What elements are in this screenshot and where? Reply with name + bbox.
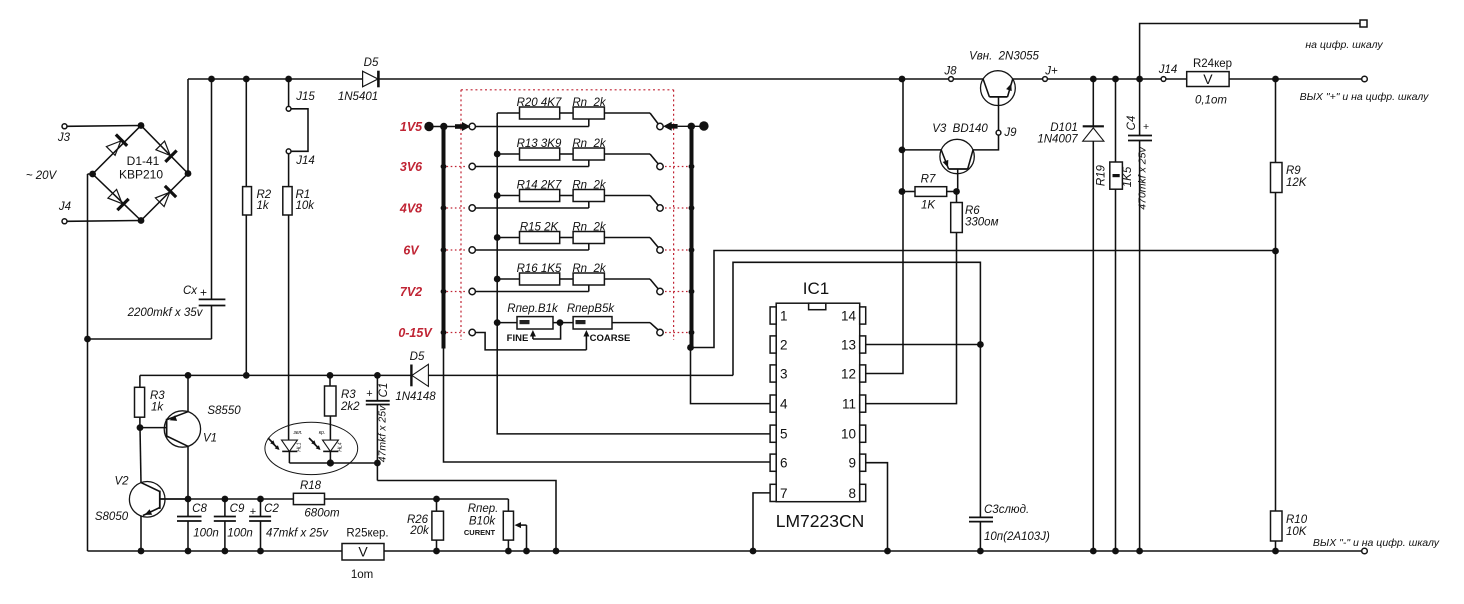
wire C4 node to digital scale terminal xyxy=(1140,24,1360,80)
svg-text:11: 11 xyxy=(842,397,856,412)
svg-text:0,1om: 0,1om xyxy=(1195,95,1227,107)
svg-text:HL1: HL1 xyxy=(297,442,303,451)
contact left 3V6 xyxy=(469,163,475,169)
svg-text:R20 4K7: R20 4K7 xyxy=(517,97,562,109)
bridge diode upper-right xyxy=(156,141,177,162)
svg-text:ВЫХ "-" и на цифр. шкалу: ВЫХ "-" и на цифр. шкалу xyxy=(1313,537,1440,549)
terminal square digital scale xyxy=(1360,20,1367,27)
bus node left 0-15V xyxy=(441,330,447,336)
svg-text:S8050: S8050 xyxy=(95,511,129,523)
wire mid rail up-over to C3 column xyxy=(733,262,980,375)
svg-text:+: + xyxy=(1143,121,1149,133)
wire pin9 to rail xyxy=(866,463,888,551)
red dotted right 3V6 xyxy=(665,166,688,168)
node V1-V2-C8 xyxy=(185,496,192,503)
svg-text:+: + xyxy=(366,388,372,400)
svg-text:10п(2А103J): 10п(2А103J) xyxy=(984,531,1050,543)
contact right 0-15V xyxy=(657,329,663,335)
svg-text:8: 8 xyxy=(848,486,856,501)
svg-text:10K: 10K xyxy=(1286,526,1308,538)
selector wiper left 1V5 xyxy=(424,122,470,131)
label 0-15V xyxy=(398,326,433,340)
contact right 6V xyxy=(657,247,663,253)
bus node right 4V8 xyxy=(689,205,695,211)
selector riser xyxy=(496,113,498,323)
wire ground rail bottom right xyxy=(384,550,1276,552)
bus node left 3V6 xyxy=(441,164,447,170)
contact right 3V6 xyxy=(657,163,663,169)
capacitor C8 100n xyxy=(177,499,219,551)
svg-text:C1: C1 xyxy=(378,383,390,398)
terminal J9 xyxy=(996,127,1017,139)
node J8 vertical R7 xyxy=(899,188,906,195)
transistor Vvn 2N3055 xyxy=(953,51,1039,131)
wire rail to output minus xyxy=(1276,550,1362,552)
node out plus R9 xyxy=(1272,76,1279,83)
transistor V3 BD140 xyxy=(902,123,999,192)
svg-text:Rn 2k: Rn 2k xyxy=(572,222,606,234)
red dotted left 0-15V xyxy=(447,332,468,334)
svg-text:J9: J9 xyxy=(1003,127,1017,139)
svg-text:+: + xyxy=(200,286,207,300)
bus node left 6V xyxy=(441,247,447,253)
wire ground rail bottom left xyxy=(88,550,343,552)
label VYH plus xyxy=(1300,91,1430,103)
capacitor C2 47mkf xyxy=(249,499,329,551)
node rail-C8 xyxy=(185,548,192,555)
node rail-C2 xyxy=(257,548,264,555)
node bus-R2 xyxy=(243,76,250,83)
terminal output minus xyxy=(1362,548,1368,554)
svg-text:0-15V: 0-15V xyxy=(398,326,433,340)
svg-text:3V6: 3V6 xyxy=(400,160,423,174)
red dotted right 0-15V xyxy=(665,332,688,334)
node pin13 junction xyxy=(977,341,984,348)
node rail-R19 xyxy=(1112,548,1119,555)
node bus-C4 xyxy=(1136,76,1143,83)
svg-text:C2: C2 xyxy=(264,503,279,515)
svg-text:D1-41: D1-41 xyxy=(127,154,160,168)
bridge diode lower-right xyxy=(155,186,176,207)
svg-text:R24кер: R24кер xyxy=(1193,58,1232,70)
svg-text:12K: 12K xyxy=(1286,177,1308,189)
node rail-pin9 xyxy=(884,548,891,555)
label ~20V input xyxy=(26,170,58,182)
capacitor Cx 2200mkf xyxy=(88,79,226,339)
terminal output plus xyxy=(1362,76,1368,82)
terminal J3 xyxy=(57,124,71,144)
wire LED cathodes to C1 xyxy=(289,462,377,464)
svg-text:V: V xyxy=(1203,71,1213,87)
svg-text:13: 13 xyxy=(841,338,856,353)
node riser pot xyxy=(494,319,501,326)
resistor R2 1k xyxy=(243,79,272,375)
terminal J4 xyxy=(58,201,71,224)
potentiometer RperB5k COARSE xyxy=(567,303,658,330)
svg-text:V3 BD140: V3 BD140 xyxy=(932,123,988,135)
terminal J14 left xyxy=(286,149,315,167)
svg-text:R18: R18 xyxy=(300,480,322,492)
contact right 1V5 xyxy=(657,123,663,129)
wire right bus to pin4 xyxy=(691,348,771,404)
node riser row4 xyxy=(494,234,501,241)
bus node left 7V2 xyxy=(441,289,447,295)
svg-text:S8550: S8550 xyxy=(207,405,241,417)
svg-text:R9: R9 xyxy=(1286,165,1301,177)
node rail-pin7 xyxy=(750,548,757,555)
bridge diode upper-left xyxy=(106,135,127,156)
wire C1 bottom to rail xyxy=(377,481,556,552)
red dotted right 7V2 xyxy=(665,291,688,293)
svg-text:~ 20V: ~ 20V xyxy=(26,170,58,182)
svg-text:R3: R3 xyxy=(341,389,356,401)
svg-text:1k: 1k xyxy=(257,200,270,212)
svg-text:1V5: 1V5 xyxy=(400,120,423,134)
bus node right 0-15V xyxy=(689,330,695,336)
selector red dotted frame xyxy=(461,90,674,340)
svg-text:D5: D5 xyxy=(364,57,379,69)
svg-text:2200mkf x 35v: 2200mkf x 35v xyxy=(127,307,204,319)
svg-text:470mkf x 25v: 470mkf x 25v xyxy=(1137,147,1149,210)
wire bridge left corner to ground rail xyxy=(88,174,93,551)
wire pin7 to rail xyxy=(753,493,770,551)
svg-text:5: 5 xyxy=(780,427,788,442)
wiper COARSE xyxy=(475,330,630,350)
wire R1 to LED HL1 xyxy=(288,215,290,440)
svg-text:R19: R19 xyxy=(1096,164,1108,186)
selector right bus bar xyxy=(690,125,694,348)
red dotted left 4V8 xyxy=(447,207,468,209)
svg-text:HL4: HL4 xyxy=(338,442,344,451)
wire riser to pin5 xyxy=(497,323,770,434)
node rail-V2 xyxy=(138,548,145,555)
red dotted left 3V6 xyxy=(447,166,468,168)
wire mid rail D5 to riser xyxy=(428,374,733,376)
node riser row2 xyxy=(494,151,501,158)
wire top bus D5 to J8 xyxy=(378,78,948,80)
node mid-C1 xyxy=(374,372,381,379)
svg-text:R6: R6 xyxy=(965,205,980,217)
wire pin11 to R6 xyxy=(866,233,957,404)
wire mid rail R3 to D5 xyxy=(140,374,412,376)
label 1V5 xyxy=(400,120,423,134)
svg-text:+: + xyxy=(250,506,256,518)
contact right 7V2 xyxy=(657,288,663,294)
svg-text:1N5401: 1N5401 xyxy=(338,91,378,103)
terminal J8 xyxy=(943,66,957,82)
resistor R1 10k xyxy=(283,154,315,215)
svg-text:Rn 2k: Rn 2k xyxy=(572,180,606,192)
node R7-R6-V3 xyxy=(953,188,960,195)
wire bus J+ to output xyxy=(1047,78,1161,80)
svg-text:R25кер.: R25кер. xyxy=(346,528,388,540)
svg-text:J4: J4 xyxy=(58,201,71,213)
node bus-D101 xyxy=(1090,76,1097,83)
svg-text:IC1: IC1 xyxy=(803,279,829,298)
LED HL1 green xyxy=(268,430,303,463)
svg-text:ВЫХ "+" и на цифр. шкалу: ВЫХ "+" и на цифр. шкалу xyxy=(1300,91,1430,103)
svg-text:J+: J+ xyxy=(1044,66,1058,78)
node R3-V1-V2 xyxy=(137,424,144,431)
selector row 6V resistors R15 2K xyxy=(475,222,658,251)
resistor R6 330om xyxy=(951,192,999,233)
node bus-Cx xyxy=(208,76,215,83)
label 6V xyxy=(403,244,420,258)
wire J4 to bridge xyxy=(67,220,141,223)
bus node right 7V2 xyxy=(689,289,695,295)
transistor V2 S8050 xyxy=(95,428,188,551)
wire jumper J15-J14 xyxy=(291,109,308,152)
svg-text:2k2: 2k2 xyxy=(340,401,360,413)
wire pin12 to J8 branch xyxy=(866,79,903,374)
svg-text:CURENT: CURENT xyxy=(464,528,496,537)
selector row 3V6 resistors R13 3K9 xyxy=(475,138,658,167)
wire right bus to R9 node xyxy=(691,251,1276,348)
bridge rectifier D1-41 KBP210 outline xyxy=(93,126,188,221)
shunt R24ker voltmeter xyxy=(1166,58,1232,107)
svg-text:J8: J8 xyxy=(943,66,957,78)
svg-text:12: 12 xyxy=(841,367,856,382)
terminal J15 xyxy=(286,79,315,111)
svg-text:7V2: 7V2 xyxy=(400,285,422,299)
svg-text:RперB5k: RперB5k xyxy=(567,303,615,315)
svg-text:Rпер.B1k: Rпер.B1k xyxy=(507,303,559,315)
svg-text:1K5: 1K5 xyxy=(1122,166,1134,187)
red dotted left 6V xyxy=(447,249,468,251)
svg-text:2: 2 xyxy=(780,338,788,353)
svg-text:Rn 2k: Rn 2k xyxy=(572,138,606,150)
node J8 vertical V3 base xyxy=(899,147,906,154)
svg-text:Vвн. 2N3055: Vвн. 2N3055 xyxy=(969,51,1039,63)
resistor R10 10K xyxy=(1271,251,1308,551)
transistor V1 S8550 xyxy=(140,375,241,499)
capacitor C4 470mkf xyxy=(1126,79,1152,551)
node rail-C4 xyxy=(1136,548,1143,555)
svg-text:V2: V2 xyxy=(114,476,129,488)
resistor R3 1k xyxy=(135,375,166,427)
svg-text:1N4007: 1N4007 xyxy=(1037,134,1078,146)
svg-text:7: 7 xyxy=(780,486,788,501)
bridge diode lower-left xyxy=(108,189,129,210)
resistor R7 1K xyxy=(902,174,957,212)
contact left 0-15V xyxy=(469,329,475,335)
wire J3 to bridge xyxy=(67,125,141,128)
label 3V6 xyxy=(400,160,423,174)
wire top supply bus left segment xyxy=(188,78,363,80)
svg-text:на цифр. шкалу: на цифр. шкалу xyxy=(1305,39,1383,51)
node bus-J8-branch xyxy=(899,76,906,83)
capacitor C1 47mkf xyxy=(366,375,390,480)
wire V box to output plus xyxy=(1229,78,1362,80)
LED HL4 red xyxy=(309,416,344,463)
terminal J+ xyxy=(1013,66,1058,82)
node pot mid xyxy=(553,319,573,326)
svg-text:C9: C9 xyxy=(230,503,245,515)
node rail-C3 xyxy=(977,548,984,555)
node rail-D101 xyxy=(1090,548,1097,555)
wire bridge right corner to bus xyxy=(187,79,189,174)
svg-text:B10k: B10k xyxy=(469,516,496,528)
label 4V8 xyxy=(399,202,422,216)
potentiometer Rper B10k xyxy=(464,499,527,551)
svg-text:R7: R7 xyxy=(921,174,936,186)
terminal J14 right xyxy=(1158,64,1178,81)
node C1 bottom LED join xyxy=(374,460,381,467)
diode D101 1N4007 xyxy=(1037,79,1104,551)
node C9 top xyxy=(222,496,229,503)
svg-text:LM7223CN: LM7223CN xyxy=(776,511,865,531)
svg-text:330ом: 330ом xyxy=(965,217,999,229)
resistor R9 12K xyxy=(1271,79,1308,251)
wire left bus to pin6 xyxy=(444,349,771,463)
node bus-R19 xyxy=(1112,76,1119,83)
resistor R19 1K5 xyxy=(1096,79,1135,551)
bus node right 3V6 xyxy=(689,164,695,170)
svg-text:C8: C8 xyxy=(192,503,207,515)
label 7V2 xyxy=(400,285,422,299)
node mid-V1 xyxy=(185,372,192,379)
node C1-rail xyxy=(553,548,560,555)
node bridge top xyxy=(138,122,145,129)
svg-text:R14 2K7: R14 2K7 xyxy=(517,180,562,192)
node bus-J15 xyxy=(285,76,292,83)
resistor R18 680om xyxy=(293,480,508,520)
svg-text:Cx: Cx xyxy=(183,285,198,297)
node rail-R26 xyxy=(433,548,440,555)
node rail-C9 xyxy=(222,548,229,555)
node mid-R2 xyxy=(243,372,250,379)
node rail-B10k xyxy=(505,548,512,555)
diode D5 1N5401 xyxy=(338,57,379,103)
label na cifr shkalu xyxy=(1305,39,1383,51)
capacitor C3 10p xyxy=(969,345,1050,552)
node riser row3 xyxy=(494,192,501,199)
node C2 top xyxy=(257,496,264,503)
svg-text:C3слюд.: C3слюд. xyxy=(984,504,1029,516)
node HL4 cathode xyxy=(327,459,334,466)
svg-text:кр.: кр. xyxy=(319,430,326,436)
svg-text:1N4148: 1N4148 xyxy=(395,391,436,403)
shunt R25ker 1om voltmeter xyxy=(342,528,389,582)
svg-text:C4: C4 xyxy=(1126,116,1138,131)
svg-text:6: 6 xyxy=(780,456,788,471)
svg-text:R15 2K: R15 2K xyxy=(520,222,560,234)
svg-text:R3: R3 xyxy=(150,390,165,402)
svg-text:Rn 2k: Rn 2k xyxy=(572,97,606,109)
contact right 4V8 xyxy=(657,205,663,211)
svg-text:J14: J14 xyxy=(295,155,315,167)
svg-text:14: 14 xyxy=(841,309,857,324)
svg-text:1K: 1K xyxy=(921,200,936,212)
svg-text:10: 10 xyxy=(841,427,856,442)
node riser row5 xyxy=(494,276,501,283)
svg-text:4V8: 4V8 xyxy=(399,202,422,216)
svg-text:зел.: зел. xyxy=(292,430,302,436)
node bridge right xyxy=(185,170,192,177)
node bridge bottom xyxy=(138,217,145,224)
node rail-wiper xyxy=(523,548,530,555)
resistor R26 20k xyxy=(407,499,444,551)
node R26 top xyxy=(433,496,440,503)
svg-text:J15: J15 xyxy=(295,91,315,103)
svg-text:680om: 680om xyxy=(304,508,340,520)
node bridge left xyxy=(89,171,96,178)
diode D5 1N4148 xyxy=(395,351,436,403)
red dotted left 7V2 xyxy=(447,291,468,293)
svg-text:20k: 20k xyxy=(409,525,430,537)
node rail-R10 xyxy=(1272,548,1279,555)
svg-text:1: 1 xyxy=(780,309,788,324)
selector row 4V8 resistors R14 2K7 xyxy=(475,180,658,209)
label VYH minus xyxy=(1313,537,1440,549)
svg-text:6V: 6V xyxy=(403,244,420,258)
selector row 1V5 resistors R20 4K7 xyxy=(475,97,658,127)
svg-text:V: V xyxy=(358,544,368,560)
svg-text:Rпер.: Rпер. xyxy=(468,503,499,515)
svg-text:V1: V1 xyxy=(203,433,217,445)
svg-text:47mkf x 25v: 47mkf x 25v xyxy=(377,405,389,462)
red dotted right 4V8 xyxy=(665,207,688,209)
svg-text:4: 4 xyxy=(780,397,788,412)
node R9-R10 xyxy=(1272,248,1279,255)
op-amp IC1 LM7223CN body xyxy=(770,279,866,531)
wiper FINE xyxy=(507,324,561,345)
potentiometer Rper B1k FINE xyxy=(497,303,559,329)
svg-text:R13 3K9: R13 3K9 xyxy=(517,138,562,150)
svg-text:47mkf x 25v: 47mkf x 25v xyxy=(266,528,329,540)
svg-text:1om: 1om xyxy=(351,569,373,581)
svg-text:100n: 100n xyxy=(193,528,219,540)
svg-text:R10: R10 xyxy=(1286,514,1308,526)
selector left bus bar xyxy=(442,125,446,349)
contact left 7V2 xyxy=(469,288,475,294)
svg-text:D101: D101 xyxy=(1050,122,1078,134)
selector row 7V2 resistors R16 1K5 xyxy=(475,263,658,292)
svg-text:D5: D5 xyxy=(410,351,425,363)
node ground rail Cx join xyxy=(84,336,91,343)
wire base row xyxy=(160,498,294,500)
contact left 6V xyxy=(469,247,475,253)
bus node left 4V8 xyxy=(441,205,447,211)
contact left 4V8 xyxy=(469,205,475,211)
svg-text:J3: J3 xyxy=(57,132,71,144)
svg-text:R16 1K5: R16 1K5 xyxy=(517,263,562,275)
svg-text:J14: J14 xyxy=(1158,64,1178,76)
svg-text:FINE: FINE xyxy=(507,333,529,344)
resistor R3 2k2 xyxy=(325,375,361,416)
svg-text:3: 3 xyxy=(780,367,788,382)
node mid-R3-2k2 xyxy=(327,372,334,379)
selector wiper right 1V5 xyxy=(663,121,708,131)
capacitor C9 100n xyxy=(214,499,253,551)
svg-text:100n: 100n xyxy=(227,528,253,540)
contact left 1V5 xyxy=(469,123,475,129)
wire pin13 xyxy=(866,344,981,346)
svg-text:10k: 10k xyxy=(296,200,316,212)
svg-text:KBP210: KBP210 xyxy=(119,168,163,182)
svg-text:1k: 1k xyxy=(151,402,164,414)
bus node right 6V xyxy=(689,247,695,253)
node right bus bottom xyxy=(687,344,694,351)
LED group ellipse xyxy=(265,422,358,474)
svg-text:9: 9 xyxy=(848,456,856,471)
svg-text:COARSE: COARSE xyxy=(590,333,631,344)
red dotted right 6V xyxy=(665,249,688,251)
svg-text:Rn 2k: Rn 2k xyxy=(572,263,606,275)
